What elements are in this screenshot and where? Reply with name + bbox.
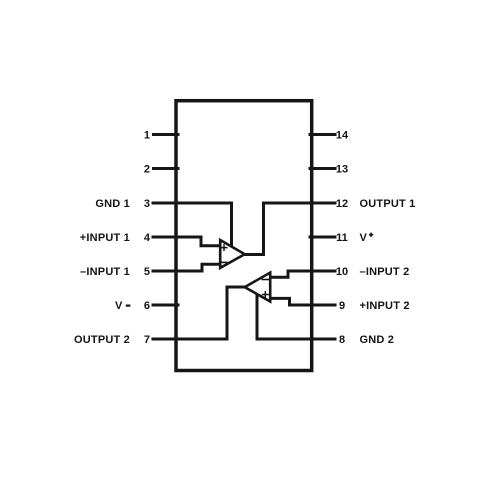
wire op-amp A output to pin 12 [244, 203, 312, 255]
svg-text:7: 7 [144, 334, 150, 346]
op-amp A triangle [220, 240, 245, 268]
svg-text:13: 13 [336, 164, 348, 176]
svg-text:4: 4 [144, 232, 151, 244]
svg-text:–INPUT 1: –INPUT 1 [80, 266, 130, 278]
svg-text:6: 6 [144, 300, 150, 312]
svg-text:5: 5 [144, 266, 150, 278]
svg-text:11: 11 [336, 232, 348, 244]
svg-text:GND 2: GND 2 [360, 334, 395, 346]
svg-text:12: 12 [336, 198, 348, 210]
svg-text:14: 14 [336, 130, 349, 142]
wire pin 9 to op-amp B noninverting input [270, 298, 313, 305]
wire pin 5 to op-amp A inverting input [176, 264, 221, 271]
op-amp B minus symbol [262, 279, 268, 281]
pin 13 lead [310, 167, 335, 170]
wire pin 10 to op-amp B inverting input [270, 271, 313, 277]
svg-text:OUTPUT 2: OUTPUT 2 [74, 334, 130, 346]
pin 6 lead (V-) [153, 304, 178, 307]
pin 5 lead (-INPUT 1) [153, 270, 178, 273]
op-amp A plus symbol [221, 245, 227, 250]
label V- minus sign [126, 305, 131, 307]
pin 12 lead (OUTPUT 1) [310, 202, 335, 205]
svg-text:10: 10 [336, 266, 348, 278]
op-amp B triangle [245, 273, 271, 302]
label V+ plus sign [369, 233, 373, 237]
wire pin 8 to op-amp B bottom slant [257, 295, 312, 339]
pin 11 lead (V+) [310, 236, 335, 239]
pin 4 lead (+INPUT 1) [153, 236, 178, 239]
pin 10 lead (-INPUT 2) [310, 270, 335, 273]
svg-text:GND 1: GND 1 [95, 198, 130, 210]
svg-text:OUTPUT 1: OUTPUT 1 [360, 198, 416, 210]
svg-text:–INPUT 2: –INPUT 2 [360, 266, 410, 278]
pin 9 lead (+INPUT 2) [310, 304, 335, 307]
svg-text:3: 3 [144, 198, 150, 210]
op-amp A minus symbol [221, 261, 227, 263]
IC package body [176, 101, 312, 371]
svg-text:+INPUT 1: +INPUT 1 [80, 232, 130, 244]
pin 8 lead (GND 2) [310, 338, 335, 341]
wire pin 4 to op-amp A noninverting input [176, 237, 221, 246]
svg-text:1: 1 [144, 130, 150, 142]
pin 14 lead [310, 133, 335, 136]
svg-text:2: 2 [144, 164, 150, 176]
svg-text:V: V [360, 232, 368, 244]
pin 3 lead (GND 1) [153, 202, 178, 205]
op-amp B plus symbol [263, 292, 269, 297]
pin 7 lead (OUTPUT 2) [153, 338, 178, 341]
wire op-amp B output to pin 7 [176, 287, 246, 339]
pin 1 lead [154, 133, 179, 136]
wire pin 3 to op-amp A top slant [176, 203, 232, 248]
svg-text:+INPUT 2: +INPUT 2 [360, 300, 410, 312]
svg-text:8: 8 [339, 334, 345, 346]
svg-text:9: 9 [339, 300, 345, 312]
pin 2 lead [154, 167, 179, 170]
svg-text:V: V [115, 300, 123, 312]
